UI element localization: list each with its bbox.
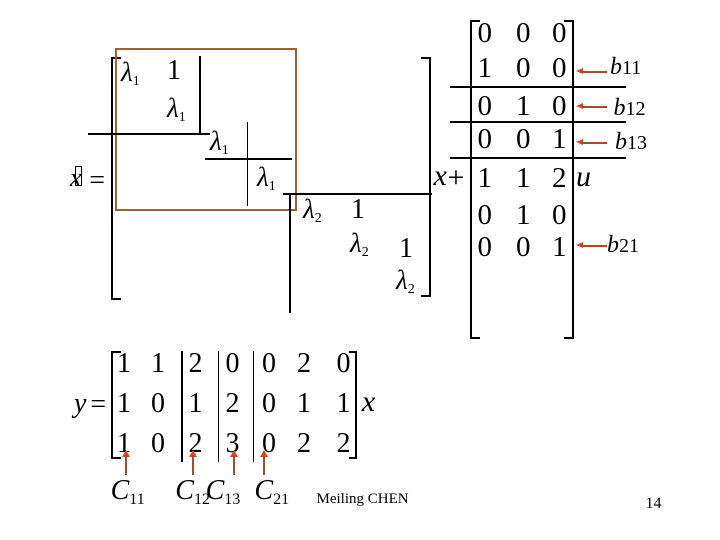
label C21	[254, 477, 289, 505]
B entry r6c1 = 0	[478, 201, 493, 230]
B entry r2c3 = 0	[552, 54, 567, 83]
C entry r1c4 = 0	[226, 350, 240, 378]
A entry 1 row1	[167, 57, 181, 85]
A entry lambda2 row6	[350, 230, 369, 257]
C entry r2c6 = 1	[297, 390, 311, 418]
arrow to b12	[576, 103, 583, 109]
C entry r1c6 = 2	[297, 350, 311, 378]
C entry r1c3 = 2	[189, 350, 203, 378]
C entry r3c1 = 1	[117, 430, 131, 458]
label b21	[607, 233, 639, 257]
B partition line 3	[450, 157, 626, 159]
label b13	[615, 130, 647, 154]
A entry lambda1 row1	[121, 59, 140, 86]
u input vector label	[576, 162, 591, 192]
B entry r1c3 = 0	[552, 19, 567, 48]
B entry r3c3 = 0	[552, 92, 567, 121]
B entry r4c2 = 0	[516, 125, 531, 154]
footer author	[317, 492, 409, 507]
C entry r1c7 = 0	[337, 350, 351, 378]
C entry r3c6 = 2	[297, 430, 311, 458]
C entry r1c2 = 1	[151, 350, 165, 378]
B entry r7c2 = 0	[516, 233, 531, 262]
B entry r7c1 = 0	[478, 233, 493, 262]
partition line v3	[289, 193, 291, 313]
partition line h2	[205, 158, 292, 160]
partition line v2	[247, 122, 249, 206]
B entry r3c2 = 1	[516, 92, 531, 121]
B entry r2c1 = 1	[478, 54, 493, 83]
label b12	[614, 96, 646, 120]
arrow to b13	[576, 139, 583, 145]
C entry r1c5 = 0	[262, 350, 276, 378]
partition line h1	[88, 133, 210, 135]
state x after C matrix	[362, 387, 375, 417]
A entry lambda2 row7	[396, 267, 415, 294]
x plus	[434, 161, 447, 191]
matrix A right bracket	[421, 57, 431, 297]
B entry r3c1 = 0	[478, 92, 493, 121]
A entry lambda1 row4	[257, 164, 276, 191]
C entry r3c3 = 2	[189, 430, 203, 458]
C entry r2c3 = 1	[189, 390, 203, 418]
B partition line 1	[450, 86, 626, 88]
A entry 1 row5	[351, 196, 365, 224]
B partition line 2	[450, 121, 626, 123]
partition line h3	[283, 193, 432, 195]
B entry r2c2 = 0	[516, 54, 531, 83]
partition line v1	[199, 56, 201, 135]
C entry r3c4 = 3	[226, 430, 240, 458]
B entry r5c2 = 1	[516, 164, 531, 193]
C entry r2c1 = 1	[117, 390, 131, 418]
matrix A left bracket	[111, 57, 121, 300]
C entry r2c2 = 0	[151, 390, 165, 418]
equals sign 2	[90, 391, 106, 419]
matrix B right bracket	[564, 20, 574, 339]
highlight rectangle (lambda1 Jordan blocks)	[115, 48, 297, 211]
C entry r2c4 = 2	[226, 390, 240, 418]
C entry r2c7 = 1	[337, 390, 351, 418]
matrix C left bracket	[111, 351, 121, 459]
C partition line v3	[253, 351, 255, 462]
arrow to C13	[230, 450, 238, 457]
B entry r5c3 = 2	[552, 164, 567, 193]
B entry r4c1 = 0	[478, 125, 493, 154]
A entry lambda1 row2	[167, 95, 186, 122]
label b11	[610, 55, 641, 79]
B entry r6c2 = 1	[516, 201, 531, 230]
page number	[646, 496, 662, 512]
B entry r7c3 = 1	[552, 233, 567, 262]
label C12	[175, 477, 210, 505]
arrow to b21	[576, 242, 583, 248]
label C13	[206, 477, 241, 505]
equals sign	[89, 167, 105, 195]
arrow to b11	[576, 68, 583, 74]
B entry r6c3 = 0	[552, 201, 567, 230]
matrix B left bracket	[470, 20, 480, 339]
A entry lambda1 row3	[210, 128, 229, 155]
C entry r3c2 = 0	[151, 430, 165, 458]
arrow to C11	[122, 450, 130, 457]
B entry r1c2 = 0	[516, 19, 531, 48]
B entry r1c1 = 0	[478, 19, 493, 48]
arrow to C21	[260, 450, 268, 457]
C entry r3c7 = 2	[337, 430, 351, 458]
label C11	[111, 477, 145, 505]
C partition line v2	[218, 351, 220, 462]
A entry lambda2 row5	[303, 196, 322, 223]
arrow to C12	[189, 450, 197, 457]
A entry 1 row6	[399, 235, 413, 263]
C partition line v1	[181, 351, 183, 462]
B entry r4c3 = 1	[552, 125, 567, 154]
C entry r2c5 = 0	[262, 390, 276, 418]
B entry r5c1 = 1	[478, 164, 493, 193]
C entry r3c5 = 0	[262, 430, 276, 458]
output y	[74, 390, 86, 418]
C entry r1c1 = 1	[117, 350, 131, 378]
matrix C right bracket	[349, 351, 358, 459]
state vector x-dot (garbled glyph box)	[75, 166, 82, 187]
